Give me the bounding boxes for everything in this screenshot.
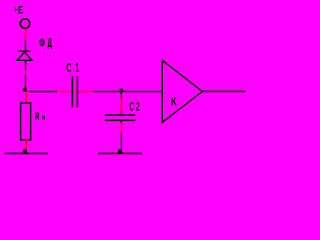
right ground rail <box>98 152 142 154</box>
output wire <box>202 90 246 92</box>
wire: terminal to photodiode (red part) <box>25 29 27 40</box>
photodiode VD cathode bar <box>18 50 31 52</box>
main wire: red segment into C1 <box>57 91 72 93</box>
wire: red segment <box>120 124 122 133</box>
svg-text:н: н <box>42 111 45 122</box>
svg-text:R: R <box>35 110 40 123</box>
op-amp K <box>162 60 202 122</box>
svg-text:K: K <box>171 96 177 109</box>
wire: terminal to photodiode (black part) <box>25 40 27 52</box>
wire: node B down to C2 (black) <box>120 92 122 99</box>
wire: photodiode to node A <box>25 60 27 70</box>
wire: node A down to resistor (red) <box>25 93 27 104</box>
svg-text:C 1: C 1 <box>66 62 80 76</box>
main wire: node A to C1 (red near junction) <box>26 91 29 93</box>
junction on right ground rail <box>118 149 122 153</box>
wire: to node A (black) <box>25 75 27 92</box>
terminal +E <box>20 19 29 28</box>
main wire: black segment <box>29 91 58 93</box>
svg-text:ФД: ФД <box>39 37 55 51</box>
wire: red segment <box>120 99 122 111</box>
wire: to node B and amp input (black) <box>93 91 162 93</box>
capacitor C1 left plate <box>71 76 73 107</box>
svg-text:+E: +E <box>13 4 23 17</box>
capacitor C2 bottom plate <box>105 119 135 121</box>
wire: C1 to node B (red) <box>78 91 93 93</box>
wire: resistor to ground (red) <box>25 140 27 152</box>
svg-text:C 2: C 2 <box>129 101 140 115</box>
wire: C2 to ground (black) <box>120 121 122 124</box>
wire: red segment below diode <box>25 71 27 75</box>
wire: black segment to C2 top plate <box>120 111 122 115</box>
capacitor C1 right plate <box>76 76 78 107</box>
junction node B <box>119 88 123 92</box>
wire: black segment to rail <box>120 133 122 154</box>
photodiode VD triangle <box>17 52 32 60</box>
junction node A <box>23 88 27 92</box>
left ground rail <box>5 152 49 154</box>
junction on left ground rail <box>23 149 27 153</box>
resistor Rn body <box>21 103 31 140</box>
capacitor C2 top plate <box>105 114 135 116</box>
